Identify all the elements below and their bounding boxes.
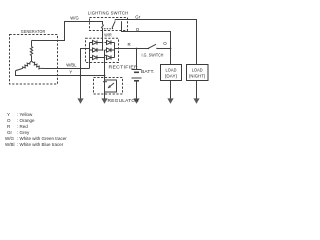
svg-text:: Yellow: : Yellow (17, 112, 33, 117)
svg-text:REGULATOR: REGULATOR (108, 98, 140, 103)
svg-text:O: O (7, 118, 11, 123)
junction dot regulator-Y (104, 75, 106, 77)
svg-text:: White with Green tracer: : White with Green tracer (17, 136, 67, 141)
svg-text:O: O (163, 41, 167, 46)
junction dot load day tap (170, 48, 172, 50)
wire W/G riser (32, 22, 97, 41)
svg-text:RECTIFIER: RECTIFIER (109, 65, 139, 70)
svg-text:Gr: Gr (135, 14, 141, 19)
diode D6 (105, 55, 115, 59)
lighting switch right pole (112, 20, 115, 30)
rectifier negative wire to ground (81, 49, 90, 99)
regulator drop wire (104, 58, 106, 99)
svg-text:I.G. SWITCH: I.G. SWITCH (142, 53, 164, 58)
regulator SCR glyph (103, 80, 117, 92)
wire Y (16, 70, 105, 76)
svg-text:W/BL: W/BL (66, 62, 77, 67)
svg-text:W/G: W/G (5, 136, 14, 141)
lighting switch gang link (104, 28, 112, 30)
battery stem top (136, 49, 138, 70)
wire W/R drop to rectifier (102, 28, 104, 42)
generator windings (16, 41, 46, 71)
svg-text:: White with Blue tracer: : White with Blue tracer (17, 142, 64, 147)
ground regulator (101, 98, 107, 103)
legend (5, 112, 67, 147)
svg-text:W/R: W/R (104, 32, 112, 37)
svg-text:: Orange: : Orange (17, 118, 35, 123)
load night wire (196, 20, 198, 99)
svg-text:: Grey: : Grey (17, 130, 30, 135)
battery (132, 70, 142, 81)
wire W/BL (46, 58, 90, 69)
junction dot battery tap (136, 48, 138, 50)
junction dots rectifier (102, 42, 104, 44)
svg-text:LOAD: LOAD (166, 67, 177, 72)
diode D2 (90, 48, 103, 52)
diode D3 (90, 55, 105, 59)
junction dot neg-Y (80, 75, 82, 77)
svg-text:Y: Y (7, 112, 10, 117)
rectifier mid riser bottom (104, 50, 106, 58)
wire O (lighting to load day) (122, 21, 171, 48)
svg-text:O: O (136, 27, 140, 32)
load day wire (170, 49, 172, 99)
svg-text:BATT.: BATT. (141, 69, 155, 74)
svg-text:GENERATOR: GENERATOR (21, 29, 46, 34)
lighting switch box (90, 18, 128, 31)
svg-text:(DAY): (DAY) (165, 73, 178, 78)
diode D1 (90, 40, 103, 44)
load day box (161, 65, 182, 81)
battery ground stem (136, 81, 138, 98)
battery ground (133, 98, 139, 103)
diode D4 (105, 40, 115, 44)
svg-text:Gr: Gr (7, 130, 13, 135)
load night box (187, 65, 209, 81)
ground load night (193, 98, 199, 103)
regulator box (94, 78, 123, 95)
rectifier right bus (114, 43, 116, 58)
ground left (77, 98, 83, 103)
junction dot neg-W/BL (80, 68, 82, 70)
rectifier left bus (89, 43, 91, 69)
svg-text:LIGHTING SWITCH: LIGHTING SWITCH (88, 10, 129, 15)
wire Gr (115, 20, 196, 65)
wire R positive rail (115, 48, 149, 50)
svg-text:W/Bl: W/Bl (5, 142, 15, 147)
diode D5 (105, 48, 115, 52)
generator box (10, 35, 58, 85)
rectifier box (86, 38, 119, 62)
ignition switch (148, 44, 171, 49)
rectifier mid riser top (102, 43, 104, 51)
svg-text:: Red: : Red (17, 124, 28, 129)
svg-text:LOAD: LOAD (192, 67, 203, 72)
svg-text:Y: Y (69, 70, 72, 75)
svg-text:R: R (128, 42, 131, 47)
lighting switch left pole (97, 22, 104, 30)
ground load day (167, 98, 173, 103)
svg-text:(NIGHT): (NIGHT) (189, 73, 206, 78)
svg-text:W/G: W/G (70, 15, 79, 20)
